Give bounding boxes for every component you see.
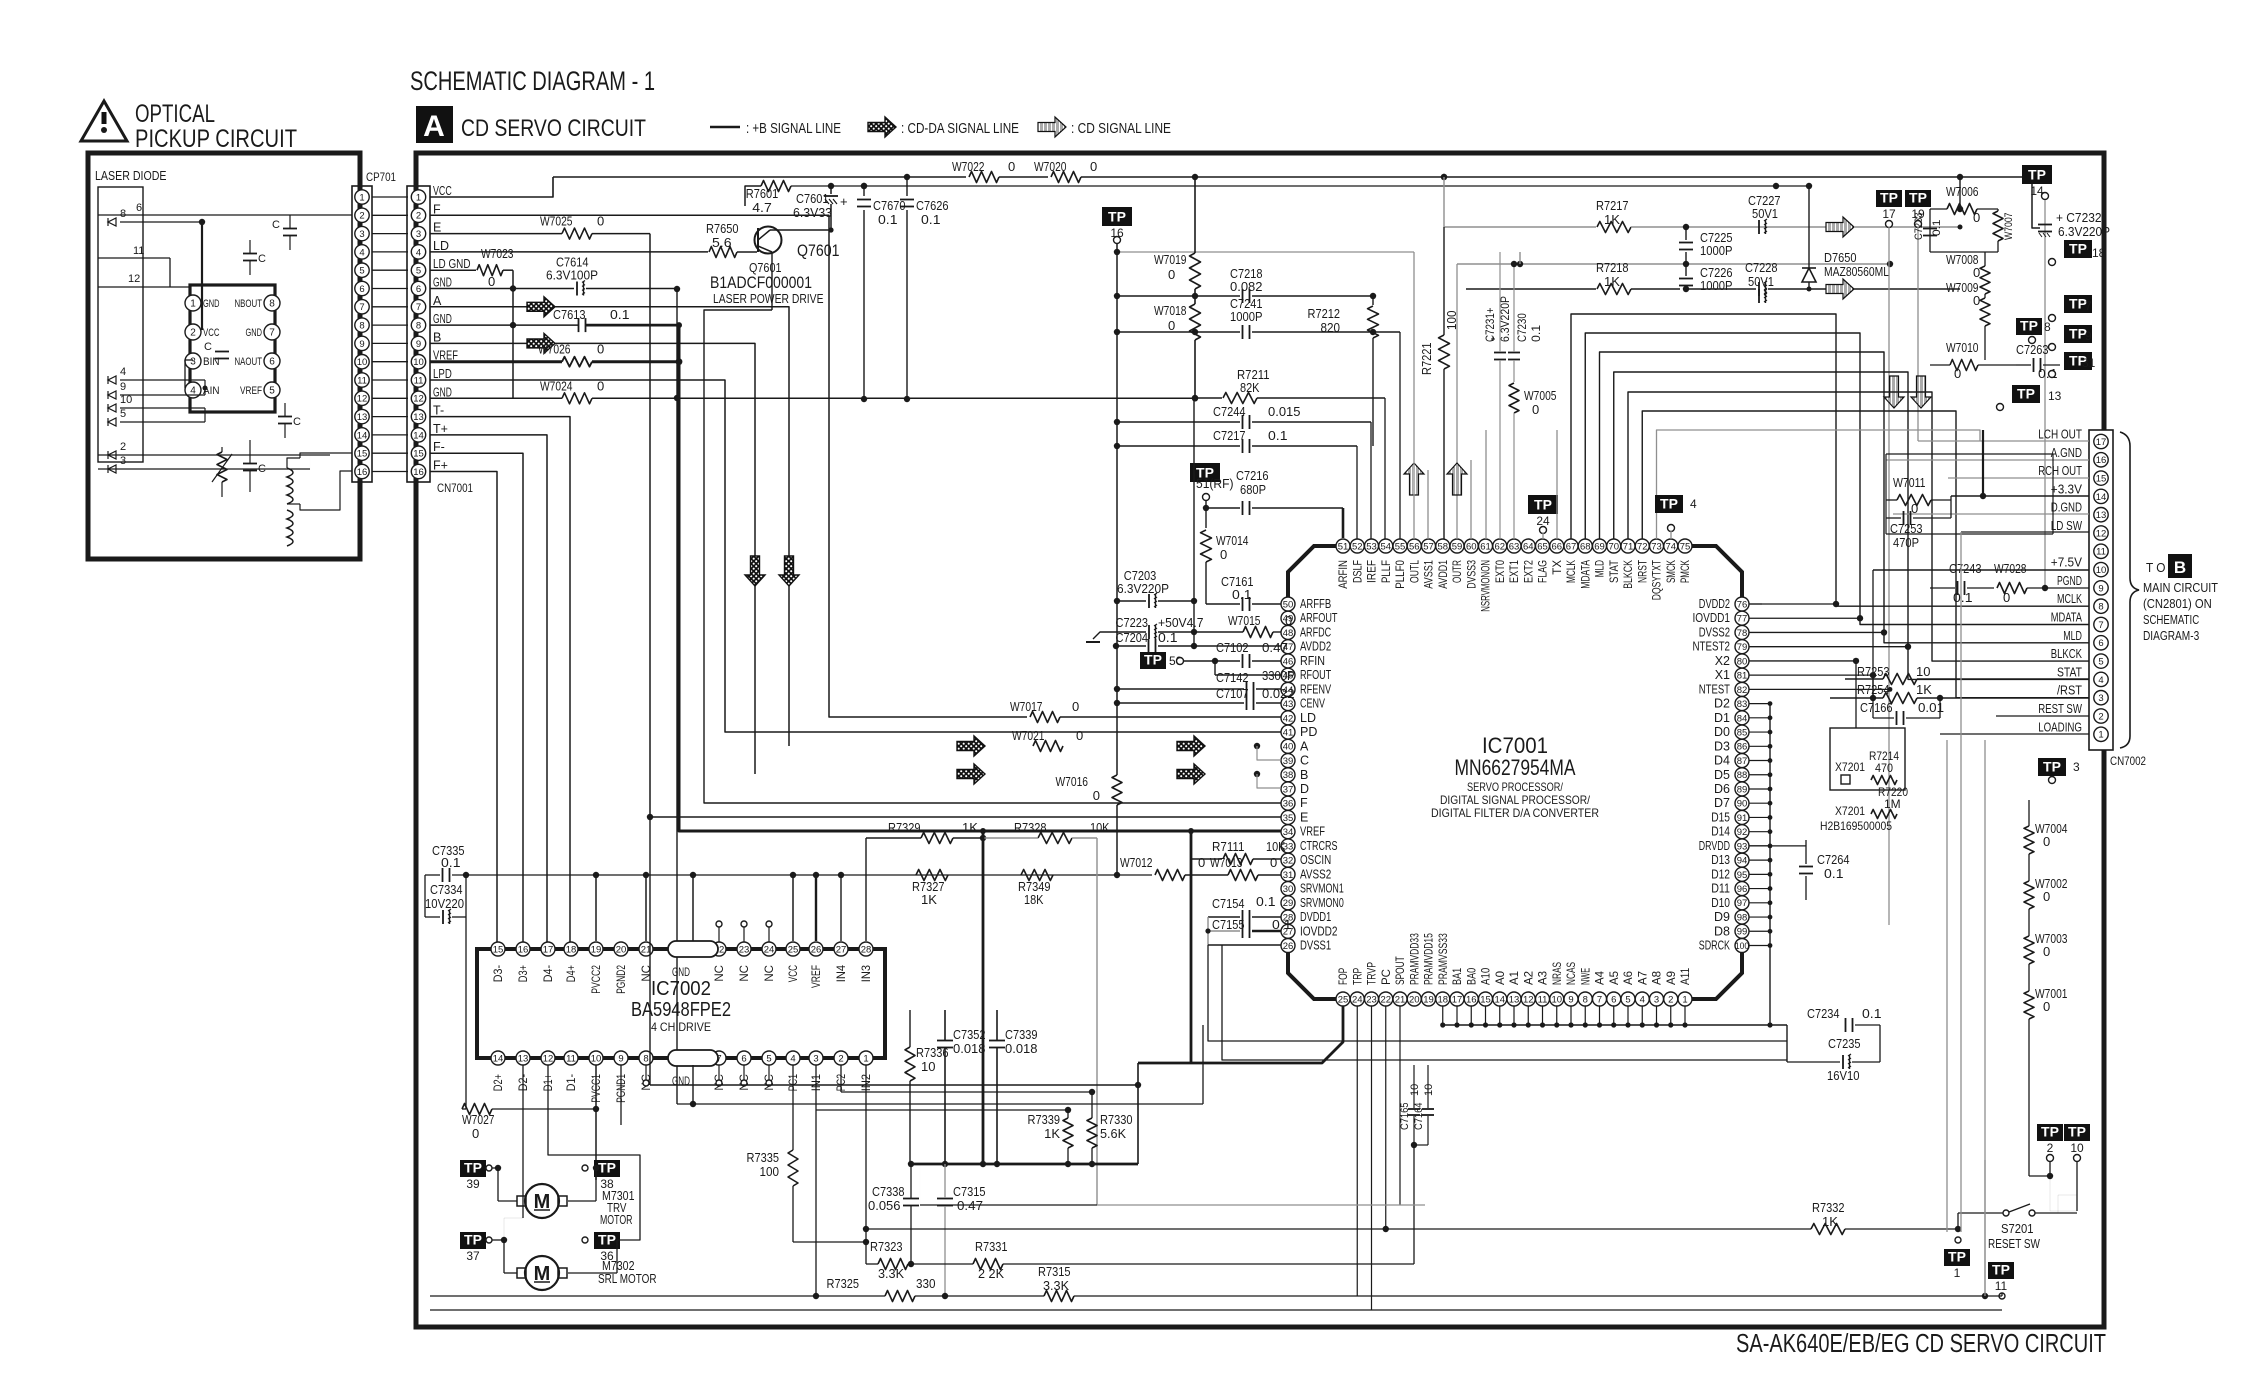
svg-text:35: 35 — [1283, 813, 1294, 824]
svg-text:70: 70 — [1608, 541, 1619, 552]
svg-text:C7166: C7166 — [1860, 700, 1893, 715]
svg-text:SMCK: SMCK — [1666, 560, 1678, 583]
svg-text:0: 0 — [1072, 699, 1079, 714]
svg-text:W7019: W7019 — [1154, 252, 1187, 267]
svg-text:21: 21 — [1395, 994, 1406, 1005]
svg-text:PGND1: PGND1 — [616, 1074, 628, 1103]
svg-text:A3: A3 — [1538, 971, 1550, 985]
svg-text:0: 0 — [597, 342, 604, 357]
svg-text:TP: TP — [1660, 496, 1678, 512]
svg-text:D5: D5 — [1714, 768, 1730, 782]
svg-text:W7005: W7005 — [1524, 388, 1557, 403]
svg-text:32: 32 — [1283, 856, 1294, 867]
svg-text:8: 8 — [359, 321, 364, 332]
svg-text:0.1: 0.1 — [1862, 1006, 1882, 1021]
svg-text:PC2: PC2 — [836, 1074, 848, 1091]
svg-text:100: 100 — [760, 1164, 780, 1179]
svg-text:4: 4 — [790, 1053, 795, 1064]
svg-text:R7221: R7221 — [1419, 343, 1434, 376]
svg-text:D1+: D1+ — [543, 1074, 555, 1091]
svg-text:0.018: 0.018 — [1005, 1041, 1038, 1056]
svg-text:TRP: TRP — [1352, 968, 1364, 985]
svg-text:6: 6 — [269, 357, 275, 368]
svg-text:2: 2 — [120, 441, 126, 453]
svg-text:A: A — [423, 110, 445, 143]
svg-text:W7010: W7010 — [1946, 340, 1979, 355]
svg-text:7: 7 — [416, 302, 421, 313]
svg-text:MLD: MLD — [1595, 560, 1607, 577]
svg-text:0.082: 0.082 — [1230, 279, 1263, 294]
svg-text:27: 27 — [836, 944, 847, 955]
svg-text:10: 10 — [1916, 664, 1930, 679]
svg-text:5: 5 — [120, 408, 126, 420]
svg-text:A8: A8 — [1652, 971, 1664, 985]
svg-text:TP: TP — [2020, 318, 2038, 334]
svg-text:6.3V220P: 6.3V220P — [1500, 296, 1512, 342]
svg-text:18: 18 — [566, 944, 577, 955]
svg-text:63: 63 — [1509, 541, 1520, 552]
svg-text:IN2: IN2 — [861, 1074, 873, 1091]
svg-text:3: 3 — [813, 1053, 818, 1064]
svg-text:17: 17 — [543, 944, 554, 955]
svg-text:77: 77 — [1737, 614, 1748, 625]
svg-text:13: 13 — [518, 1053, 529, 1064]
svg-text:16: 16 — [413, 467, 424, 478]
svg-text:NWE: NWE — [1580, 968, 1592, 985]
svg-text:2: 2 — [359, 211, 364, 222]
svg-text:14: 14 — [357, 430, 368, 441]
svg-text:3300P: 3300P — [1262, 668, 1295, 683]
svg-text:OSCIN: OSCIN — [1300, 853, 1331, 867]
svg-text:0: 0 — [1532, 402, 1539, 417]
svg-text:1: 1 — [2098, 730, 2103, 741]
svg-text:NC: NC — [641, 965, 653, 982]
svg-text:3.3K: 3.3K — [878, 1266, 904, 1281]
svg-text:17: 17 — [1452, 994, 1463, 1005]
svg-text:GND: GND — [672, 965, 690, 979]
svg-text:A: A — [1300, 739, 1309, 753]
svg-text:93: 93 — [1737, 841, 1748, 852]
svg-text:18: 18 — [1437, 994, 1448, 1005]
svg-text:1K: 1K — [962, 820, 978, 835]
svg-text:9: 9 — [120, 381, 126, 393]
svg-text:3: 3 — [359, 229, 364, 240]
svg-text:1: 1 — [1682, 994, 1687, 1005]
svg-text:E: E — [1300, 810, 1308, 824]
svg-text:72: 72 — [1637, 541, 1648, 552]
svg-text:AVDD1: AVDD1 — [1438, 560, 1450, 589]
svg-text:PICKUP CIRCUIT: PICKUP CIRCUIT — [135, 125, 297, 153]
svg-text:SRL MOTOR: SRL MOTOR — [598, 1271, 657, 1286]
svg-text:6: 6 — [416, 284, 421, 295]
svg-text:ARFDC: ARFDC — [1300, 625, 1331, 639]
svg-text:81: 81 — [1737, 671, 1748, 682]
svg-text:D13: D13 — [1711, 853, 1730, 867]
svg-text:+3.3V: +3.3V — [2051, 482, 2083, 496]
svg-text:IOVDD1: IOVDD1 — [1693, 611, 1731, 625]
svg-text:D9: D9 — [1714, 910, 1730, 924]
svg-text:52: 52 — [1352, 541, 1363, 552]
svg-text:MCLK: MCLK — [2057, 592, 2082, 606]
svg-text:11: 11 — [566, 1053, 576, 1064]
svg-text:STAT: STAT — [2057, 665, 2082, 679]
svg-text:8: 8 — [120, 208, 126, 220]
svg-text:C7235: C7235 — [1828, 1036, 1861, 1051]
svg-text:10: 10 — [921, 1059, 935, 1074]
svg-text:R7332: R7332 — [1812, 1200, 1845, 1215]
svg-text:11: 11 — [1538, 994, 1548, 1005]
svg-text:RFIN: RFIN — [1300, 654, 1325, 668]
svg-text:23: 23 — [739, 944, 750, 955]
svg-text:MAZ80560ML: MAZ80560ML — [1824, 264, 1889, 279]
svg-text:Q7601: Q7601 — [797, 241, 840, 260]
svg-text:C7228: C7228 — [1745, 260, 1778, 275]
svg-text:0: 0 — [1220, 547, 1227, 562]
svg-text:6: 6 — [359, 284, 364, 295]
svg-text:10: 10 — [357, 357, 368, 368]
svg-text:15: 15 — [413, 449, 424, 460]
svg-text:6.3V220P: 6.3V220P — [1117, 581, 1169, 596]
svg-text:1M: 1M — [1884, 797, 1901, 811]
svg-text:DVSS1: DVSS1 — [1300, 939, 1331, 953]
svg-text:94: 94 — [1737, 856, 1748, 867]
svg-text:50: 50 — [1283, 599, 1294, 610]
svg-text:2: 2 — [1668, 994, 1673, 1005]
svg-text:18K: 18K — [1024, 892, 1044, 907]
svg-text:C7315: C7315 — [953, 1184, 986, 1199]
svg-text:C: C — [258, 253, 266, 265]
svg-text:NTEST2: NTEST2 — [1693, 640, 1731, 654]
svg-text:90: 90 — [1737, 799, 1748, 810]
svg-text:470: 470 — [1875, 761, 1893, 775]
svg-text:S7201: S7201 — [2001, 1221, 2034, 1236]
svg-text:5: 5 — [416, 266, 421, 277]
svg-text:NC: NC — [764, 965, 776, 982]
svg-text:26: 26 — [1283, 941, 1294, 952]
svg-text:10V220: 10V220 — [425, 896, 464, 911]
svg-text:89: 89 — [1737, 784, 1748, 795]
svg-text:23: 23 — [1366, 994, 1377, 1005]
svg-text:4: 4 — [2098, 675, 2103, 686]
svg-text:AVSS2: AVSS2 — [1300, 867, 1331, 881]
svg-text:SERVO PROCESSOR/: SERVO PROCESSOR/ — [1467, 780, 1564, 794]
svg-text:C7102: C7102 — [1216, 640, 1249, 655]
svg-text:100: 100 — [1735, 941, 1749, 952]
svg-text:IN3: IN3 — [861, 965, 873, 982]
svg-text:10: 10 — [2070, 1141, 2084, 1155]
svg-text:67: 67 — [1566, 541, 1577, 552]
svg-text:9: 9 — [2085, 329, 2092, 343]
svg-text:TP: TP — [2069, 241, 2087, 257]
svg-text:1K: 1K — [1916, 682, 1932, 697]
svg-text:12: 12 — [413, 394, 424, 405]
svg-text:76: 76 — [1737, 599, 1748, 610]
svg-text:0: 0 — [1168, 318, 1175, 333]
svg-text:: +B SIGNAL LINE: : +B SIGNAL LINE — [746, 121, 841, 137]
svg-text:98: 98 — [1737, 912, 1748, 923]
svg-text:0.1: 0.1 — [1953, 590, 1973, 605]
svg-text:86: 86 — [1737, 742, 1748, 753]
svg-text:BA5948FPE2: BA5948FPE2 — [631, 999, 731, 1021]
svg-text:17: 17 — [2096, 437, 2107, 448]
svg-text:19: 19 — [1423, 994, 1434, 1005]
svg-text:69: 69 — [1594, 541, 1605, 552]
svg-text:470P: 470P — [1893, 535, 1919, 550]
svg-text:SA-AK640E/EB/EG CD SERVO CIRCU: SA-AK640E/EB/EG CD SERVO CIRCUIT — [1736, 1328, 2106, 1358]
svg-text:PRAMVDD15: PRAMVDD15 — [1424, 933, 1436, 985]
svg-text:NC: NC — [714, 965, 726, 982]
svg-text:8: 8 — [2098, 602, 2103, 613]
svg-text:20: 20 — [616, 944, 627, 955]
svg-text:9: 9 — [1568, 994, 1573, 1005]
svg-text:R7330: R7330 — [1100, 1112, 1133, 1127]
svg-text:14: 14 — [493, 1053, 504, 1064]
svg-text:PGND: PGND — [2057, 574, 2082, 588]
svg-text:1000P: 1000P — [1700, 278, 1733, 293]
svg-text:TP: TP — [1948, 1249, 1966, 1265]
svg-text:R7650: R7650 — [706, 221, 739, 236]
svg-text:10: 10 — [1551, 994, 1562, 1005]
svg-text:(CN2801) ON: (CN2801) ON — [2143, 597, 2212, 611]
svg-text:DVSS2: DVSS2 — [1699, 625, 1730, 639]
svg-text:55: 55 — [1395, 541, 1406, 552]
svg-text:0: 0 — [1973, 265, 1980, 280]
svg-text:79: 79 — [1737, 642, 1748, 653]
svg-text:NBOUT: NBOUT — [235, 298, 263, 310]
svg-text:DIGITAL FILTER D/A CONVERTER: DIGITAL FILTER D/A CONVERTER — [1431, 806, 1599, 820]
svg-text:X1: X1 — [1715, 668, 1730, 682]
svg-text:7: 7 — [1597, 994, 1602, 1005]
svg-text:82K: 82K — [1240, 380, 1260, 395]
svg-text:C7234: C7234 — [1807, 1006, 1840, 1021]
svg-text:16: 16 — [518, 944, 529, 955]
svg-text:C7155: C7155 — [1212, 917, 1245, 932]
svg-text:7: 7 — [269, 328, 275, 339]
svg-text:R7111: R7111 — [1212, 839, 1245, 854]
svg-text:MLD: MLD — [2063, 629, 2082, 643]
svg-text:DIAGRAM-3: DIAGRAM-3 — [2143, 629, 2199, 643]
svg-text:11: 11 — [1995, 1279, 2008, 1293]
svg-text:A0: A0 — [1495, 971, 1507, 985]
svg-text:57: 57 — [1423, 541, 1434, 552]
svg-text:10K: 10K — [1090, 820, 1110, 835]
svg-text:8: 8 — [2044, 320, 2051, 334]
svg-text:10: 10 — [1423, 1084, 1435, 1096]
svg-text:W7014: W7014 — [1216, 533, 1249, 548]
svg-text:0.47: 0.47 — [1262, 640, 1288, 655]
svg-text:OUTR: OUTR — [1452, 560, 1464, 583]
svg-text:95: 95 — [1737, 870, 1748, 881]
svg-text:16: 16 — [1466, 994, 1477, 1005]
svg-text:6.3V33: 6.3V33 — [793, 205, 832, 220]
svg-text:7: 7 — [2098, 620, 2103, 631]
svg-text:SCHEMATIC: SCHEMATIC — [2143, 613, 2199, 627]
svg-text:R7217: R7217 — [1596, 198, 1629, 213]
svg-text:TP: TP — [464, 1232, 482, 1248]
svg-text:D7650: D7650 — [1824, 250, 1857, 265]
svg-text:A4: A4 — [1595, 970, 1607, 985]
svg-text:42: 42 — [1283, 713, 1294, 724]
svg-text:FOP: FOP — [1338, 968, 1350, 985]
svg-text:EXT0: EXT0 — [1495, 560, 1507, 583]
svg-text:5: 5 — [766, 1053, 771, 1064]
svg-text:4: 4 — [416, 247, 421, 258]
svg-text:PGND2: PGND2 — [616, 965, 628, 994]
svg-text:DQSYTXT: DQSYTXT — [1652, 560, 1664, 600]
svg-text:: CD SIGNAL LINE: : CD SIGNAL LINE — [1071, 121, 1171, 137]
svg-text:PVCC1: PVCC1 — [591, 1074, 603, 1103]
svg-text:LD SW: LD SW — [2051, 519, 2082, 533]
svg-text:GND: GND — [203, 298, 220, 310]
svg-text:11: 11 — [357, 375, 367, 386]
svg-text:46: 46 — [1283, 656, 1294, 667]
svg-text:7: 7 — [359, 302, 364, 313]
svg-text:0.1: 0.1 — [1256, 894, 1276, 909]
svg-text:1: 1 — [416, 192, 421, 203]
svg-text:11: 11 — [133, 245, 144, 257]
svg-text:R7329: R7329 — [888, 820, 921, 835]
svg-text:MAIN CIRCUIT: MAIN CIRCUIT — [2143, 581, 2218, 595]
svg-text:12: 12 — [543, 1053, 554, 1064]
svg-text:F: F — [433, 202, 441, 216]
svg-text:D3+: D3+ — [518, 965, 530, 982]
svg-text:X7201: X7201 — [1835, 804, 1865, 818]
svg-text:A2: A2 — [1523, 971, 1535, 985]
svg-text:8: 8 — [643, 1053, 648, 1064]
svg-text:SRVMON0: SRVMON0 — [1300, 896, 1344, 910]
svg-text:0: 0 — [472, 1126, 479, 1141]
svg-text:6: 6 — [2098, 638, 2103, 649]
svg-text:1000P: 1000P — [1230, 309, 1263, 324]
svg-text:VCC: VCC — [433, 184, 452, 198]
svg-text:W7002: W7002 — [2035, 876, 2068, 891]
svg-text:PC1: PC1 — [788, 1074, 800, 1091]
svg-text:29: 29 — [1283, 898, 1294, 909]
svg-text:2: 2 — [2098, 711, 2103, 722]
svg-text:GND: GND — [246, 327, 263, 339]
svg-text:10: 10 — [2096, 565, 2107, 576]
svg-text:GND: GND — [433, 312, 452, 326]
svg-text:6.3V220P: 6.3V220P — [2058, 224, 2110, 239]
svg-text:4: 4 — [359, 247, 364, 258]
svg-text:A11: A11 — [1680, 968, 1692, 985]
svg-text:3: 3 — [190, 357, 196, 368]
svg-text:CN7002: CN7002 — [2110, 754, 2146, 768]
svg-text:D.GND: D.GND — [2051, 501, 2082, 515]
svg-text:/RST: /RST — [2057, 684, 2082, 698]
svg-text:100: 100 — [1444, 311, 1459, 331]
svg-text:NAOUT: NAOUT — [235, 356, 263, 368]
svg-text:0: 0 — [2043, 889, 2050, 904]
svg-text:1: 1 — [359, 192, 364, 203]
svg-text:0: 0 — [1973, 210, 1980, 225]
svg-text:IC7002: IC7002 — [651, 978, 711, 1000]
svg-text:12: 12 — [128, 273, 140, 285]
svg-text:14: 14 — [1494, 994, 1505, 1005]
svg-text:C7233: C7233 — [1913, 213, 1925, 241]
svg-text:0: 0 — [1008, 159, 1015, 174]
svg-text:IN4: IN4 — [836, 964, 848, 982]
svg-text:C7223: C7223 — [1116, 615, 1149, 630]
svg-text:CENV: CENV — [1300, 697, 1325, 711]
svg-text:W7004: W7004 — [2035, 821, 2068, 836]
svg-text:C: C — [204, 341, 212, 353]
svg-text:PMCK: PMCK — [1680, 560, 1692, 583]
svg-text:0: 0 — [1270, 855, 1277, 870]
svg-text:TP: TP — [2043, 759, 2061, 775]
svg-text:50V1: 50V1 — [1752, 206, 1778, 221]
svg-text:TP: TP — [1534, 497, 1552, 513]
svg-text:6.3V100P: 6.3V100P — [546, 268, 598, 283]
svg-text:30: 30 — [1283, 884, 1294, 895]
svg-text:FLAG: FLAG — [1538, 560, 1550, 583]
svg-text:LPD: LPD — [433, 367, 452, 381]
svg-text:R7601: R7601 — [746, 186, 779, 201]
svg-text:92: 92 — [1737, 827, 1748, 838]
svg-text:0.1: 0.1 — [878, 212, 898, 227]
svg-text:TP: TP — [2017, 386, 2035, 402]
svg-text:15: 15 — [357, 449, 368, 460]
svg-text:R7323: R7323 — [870, 1239, 903, 1254]
svg-text:BA0: BA0 — [1466, 968, 1478, 985]
svg-text:61: 61 — [1480, 541, 1491, 552]
svg-text:D2-: D2- — [518, 1074, 530, 1091]
svg-text:84: 84 — [1737, 713, 1748, 724]
svg-text:NC: NC — [739, 965, 751, 982]
svg-text:W7023: W7023 — [481, 246, 514, 261]
svg-text:64: 64 — [1523, 541, 1534, 552]
svg-text:31: 31 — [2082, 356, 2096, 370]
svg-text:C7165: C7165 — [1399, 1103, 1411, 1131]
svg-text:PRAMVDD33: PRAMVDD33 — [1409, 933, 1421, 985]
svg-text:1000P: 1000P — [1700, 243, 1733, 258]
svg-text:B: B — [433, 330, 441, 344]
svg-text:96: 96 — [1737, 884, 1748, 895]
svg-text:R7335: R7335 — [747, 1150, 780, 1165]
svg-text:DVSS3: DVSS3 — [1466, 560, 1478, 589]
svg-text:D4+: D4+ — [566, 965, 578, 982]
svg-text:DRVDD: DRVDD — [1699, 839, 1730, 853]
svg-text:DSLF: DSLF — [1352, 560, 1364, 583]
svg-text:D15: D15 — [1711, 810, 1730, 824]
svg-text:0.1: 0.1 — [441, 855, 461, 870]
svg-text:C: C — [272, 219, 280, 231]
svg-text:H2B169500005: H2B169500005 — [1820, 819, 1892, 833]
svg-text:C7601: C7601 — [796, 191, 829, 206]
svg-text:2: 2 — [2047, 1141, 2054, 1155]
svg-text:4.7: 4.7 — [752, 200, 772, 215]
svg-text:T+: T+ — [433, 422, 448, 436]
svg-text:B: B — [2174, 558, 2186, 577]
svg-text:28: 28 — [861, 944, 872, 955]
svg-text:CP701: CP701 — [366, 170, 396, 184]
svg-text:W7026: W7026 — [538, 342, 571, 357]
svg-text:TP: TP — [464, 1160, 482, 1176]
svg-text:W7001: W7001 — [2035, 986, 2068, 1001]
svg-text:W7020: W7020 — [1034, 159, 1067, 174]
svg-text:C7352: C7352 — [953, 1027, 986, 1042]
svg-text:D11: D11 — [1711, 882, 1730, 896]
svg-text:NCAS: NCAS — [1566, 962, 1578, 985]
svg-text:74: 74 — [1665, 541, 1676, 552]
svg-text:AVDD2: AVDD2 — [1300, 640, 1331, 654]
svg-text:LASER DIODE: LASER DIODE — [95, 168, 167, 183]
svg-text:MCLK: MCLK — [1566, 560, 1578, 583]
svg-text:EXT1: EXT1 — [1509, 560, 1521, 583]
svg-text:SCHEMATIC DIAGRAM - 1: SCHEMATIC DIAGRAM - 1 — [410, 66, 655, 96]
svg-text:88: 88 — [1737, 770, 1748, 781]
svg-text:R7212: R7212 — [1308, 306, 1341, 321]
